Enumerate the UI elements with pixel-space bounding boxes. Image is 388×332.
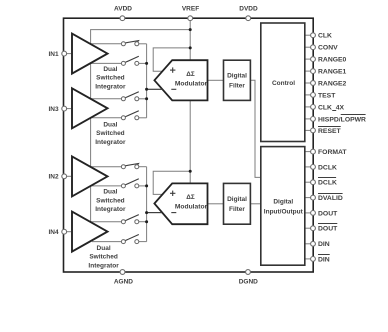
svg-text:RESET: RESET bbox=[318, 128, 342, 135]
svg-text:IN2: IN2 bbox=[48, 174, 59, 181]
svg-text:Switched: Switched bbox=[96, 130, 125, 137]
svg-text:Integrator: Integrator bbox=[95, 206, 126, 213]
svg-text:Input/Output: Input/Output bbox=[264, 208, 304, 215]
svg-text:DOUT: DOUT bbox=[318, 226, 338, 233]
svg-text:Switched: Switched bbox=[89, 254, 118, 261]
svg-text:CLK: CLK bbox=[318, 33, 332, 40]
svg-text:Filter: Filter bbox=[229, 206, 245, 213]
svg-text:CLK_4X: CLK_4X bbox=[318, 104, 345, 111]
svg-text:Digital: Digital bbox=[273, 199, 293, 206]
svg-text:Integrator: Integrator bbox=[95, 83, 126, 90]
svg-text:IN4: IN4 bbox=[48, 229, 59, 236]
svg-text:Modulator: Modulator bbox=[175, 204, 208, 211]
svg-text:RANGE0: RANGE0 bbox=[318, 57, 347, 64]
svg-text:Dual: Dual bbox=[103, 121, 117, 128]
svg-text:AVDD: AVDD bbox=[114, 6, 132, 13]
svg-text:Integrator: Integrator bbox=[88, 262, 119, 269]
svg-text:VREF: VREF bbox=[182, 6, 199, 13]
svg-text:IN1: IN1 bbox=[48, 51, 59, 58]
svg-text:DGND: DGND bbox=[239, 278, 258, 285]
svg-text:Modulator: Modulator bbox=[175, 81, 208, 88]
svg-text:Dual: Dual bbox=[97, 245, 111, 252]
svg-text:Digital: Digital bbox=[227, 196, 247, 203]
svg-text:DOUT: DOUT bbox=[318, 210, 338, 217]
svg-text:TEST: TEST bbox=[318, 92, 336, 99]
svg-text:DIN: DIN bbox=[318, 241, 330, 248]
svg-text:Integrator: Integrator bbox=[95, 139, 126, 146]
svg-text:Filter: Filter bbox=[229, 83, 245, 90]
svg-text:ΔΣ: ΔΣ bbox=[186, 71, 195, 78]
svg-text:FORMAT: FORMAT bbox=[318, 149, 347, 156]
svg-text:Switched: Switched bbox=[96, 197, 125, 204]
svg-text:Switched: Switched bbox=[96, 75, 125, 82]
svg-text:RANGE1: RANGE1 bbox=[318, 69, 347, 76]
svg-text:RANGE2: RANGE2 bbox=[318, 80, 347, 87]
svg-text:DIN: DIN bbox=[318, 256, 330, 263]
svg-text:DCLK: DCLK bbox=[318, 164, 337, 171]
svg-text:CONV: CONV bbox=[318, 45, 338, 52]
svg-text:Control: Control bbox=[272, 80, 295, 87]
svg-text:IN3: IN3 bbox=[48, 106, 59, 113]
svg-text:DVALID: DVALID bbox=[318, 195, 343, 202]
svg-text:Digital: Digital bbox=[227, 72, 247, 79]
svg-text:DCLK: DCLK bbox=[318, 180, 337, 187]
svg-text:HISPD/LOPWR: HISPD/LOPWR bbox=[318, 116, 366, 123]
svg-text:ΔΣ: ΔΣ bbox=[186, 194, 195, 201]
svg-text:AGND: AGND bbox=[114, 279, 133, 286]
svg-text:DVDD: DVDD bbox=[239, 6, 258, 13]
svg-text:Dual: Dual bbox=[103, 189, 117, 196]
svg-text:Dual: Dual bbox=[103, 66, 117, 73]
